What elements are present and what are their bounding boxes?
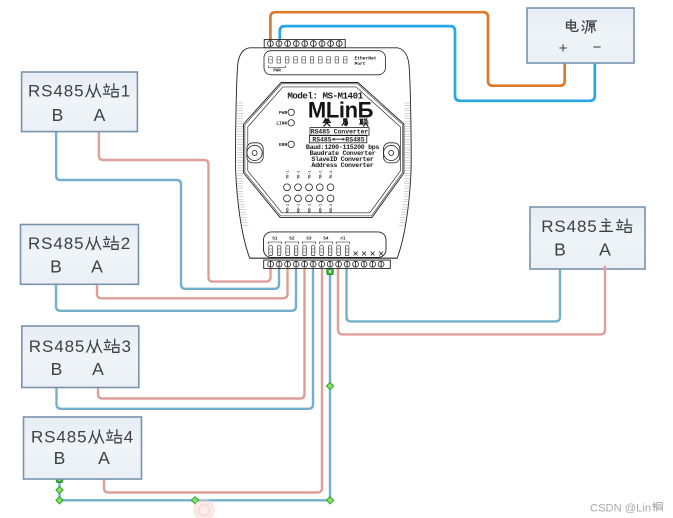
svg-text:2: 2 xyxy=(121,234,131,253)
svg-text:RS485: RS485 xyxy=(28,82,84,101)
selection handle diamond mid horizontal xyxy=(191,497,198,504)
svg-text:+: + xyxy=(559,40,568,57)
selection handle diamond mid left segment xyxy=(56,486,63,493)
bottom terminal strip xyxy=(264,260,391,268)
svg-text:CSDN @Lin: CSDN @Lin xyxy=(590,503,651,515)
svg-text:EtherNet: EtherNet xyxy=(355,56,377,62)
device bottom edge line xyxy=(250,257,398,259)
svg-text:TD-1: TD-1 xyxy=(330,170,334,179)
wire slave2 B (blue) to bottom terminal 4 xyxy=(56,266,296,311)
svg-text:RD-1: RD-1 xyxy=(319,204,323,213)
box RS485 master xyxy=(530,207,645,269)
selection handle diamond corner right xyxy=(326,497,333,504)
svg-text:RS485: RS485 xyxy=(28,234,84,253)
svg-text:TD-1: TD-1 xyxy=(287,170,291,179)
octagon panel outer xyxy=(244,83,404,218)
box RS485 slave 1 xyxy=(22,72,138,132)
wire slave3 B (blue) to bottom terminal 6 xyxy=(57,266,314,409)
body edge hatching xyxy=(237,103,410,225)
converter device MS-M1401 xyxy=(236,40,412,259)
box RS485 slave 2 xyxy=(21,225,139,285)
svg-text:RS485 Converter: RS485 Converter xyxy=(311,129,369,136)
svg-text:B: B xyxy=(54,448,66,468)
wire power + (orange) from converter top terminal 1 to power supply + xyxy=(270,12,564,86)
box RS485 slave 4 xyxy=(24,417,142,479)
top terminal strip xyxy=(264,40,345,48)
svg-text:RS485: RS485 xyxy=(312,136,331,143)
label box RS485 Converter xyxy=(310,128,369,136)
screw post left xyxy=(247,143,263,163)
svg-text:A: A xyxy=(92,359,104,379)
svg-text:RS485: RS485 xyxy=(31,428,87,447)
svg-text:S3: S3 xyxy=(306,236,312,241)
wire slave3 A (salmon) to bottom terminal 5 xyxy=(98,266,305,399)
svg-text:B: B xyxy=(554,240,566,260)
indicator circles row 1 xyxy=(284,184,291,191)
wire slave2 A (salmon) to bottom terminal 3 xyxy=(97,266,288,298)
svg-text:S2: S2 xyxy=(289,236,295,241)
svg-text:RD-1: RD-1 xyxy=(309,204,313,213)
box power supply xyxy=(527,8,634,63)
svg-text:B: B xyxy=(52,105,64,125)
wire slave4 A (salmon) to bottom terminal 7 xyxy=(104,266,322,493)
box RS485 slave 3 xyxy=(22,326,139,388)
svg-text:Address Converter: Address Converter xyxy=(311,162,374,169)
selection handle diamond mid right vertical xyxy=(326,382,333,389)
wire slave1 B (blue) to bottom terminal 2 xyxy=(56,130,279,289)
svg-text:S1: S1 xyxy=(272,236,278,241)
svg-text:B: B xyxy=(51,359,63,379)
svg-text:RD-1: RD-1 xyxy=(330,204,334,213)
master A wire stub inside box xyxy=(604,266,606,270)
svg-text:A: A xyxy=(91,257,103,277)
wire master B (blue) to bottom terminal 10 xyxy=(347,266,561,321)
device body outline xyxy=(236,48,412,258)
svg-text:TD-1: TD-1 xyxy=(319,170,323,179)
bottom connector panel xyxy=(264,232,387,258)
svg-text:1: 1 xyxy=(121,82,131,101)
svg-text:PWR: PWR xyxy=(273,70,281,74)
svg-text:TD-1: TD-1 xyxy=(298,170,302,179)
svg-text:−: − xyxy=(593,39,602,56)
octagon panel inner ridge 1 xyxy=(245,84,403,216)
svg-text:TD-1: TD-1 xyxy=(309,170,313,179)
selection handle square at slave4 B connection xyxy=(56,476,62,482)
svg-text:#1: #1 xyxy=(340,236,346,241)
svg-text:3: 3 xyxy=(122,337,132,356)
upper connector panel xyxy=(264,51,385,75)
wire power - (blue) from converter top terminal 2 to power supply - xyxy=(280,26,595,101)
svg-text:RD-1: RD-1 xyxy=(287,204,291,213)
wire slave4 B (blue, selected) to bottom terminal 8 xyxy=(60,266,331,500)
svg-text:A: A xyxy=(599,240,611,260)
label box RS485-RS485 xyxy=(309,136,366,143)
svg-text:RD-1: RD-1 xyxy=(298,204,302,213)
octagon panel inner ridge 2 xyxy=(248,87,401,213)
faint pink watermark logo xyxy=(193,499,215,518)
wire master A (salmon) to bottom terminal 9 xyxy=(338,266,605,334)
svg-text:LINK: LINK xyxy=(276,121,287,127)
logo chinese characters 美易联 xyxy=(323,119,330,126)
svg-text:PWR: PWR xyxy=(279,110,288,116)
svg-text:MLinБ: MLinБ xyxy=(308,98,374,123)
svg-text:B: B xyxy=(50,257,62,277)
screw post right xyxy=(384,143,400,163)
svg-text:RS485: RS485 xyxy=(541,217,597,236)
svg-text:RS485: RS485 xyxy=(345,136,364,143)
svg-text:S4: S4 xyxy=(323,236,329,241)
svg-text:A: A xyxy=(98,448,110,468)
svg-text:ERR: ERR xyxy=(279,142,288,148)
svg-text:RS485: RS485 xyxy=(29,337,85,356)
selection handle diamond corner left xyxy=(56,497,63,504)
svg-text:Port: Port xyxy=(355,61,366,67)
indicator circles row 2 xyxy=(284,195,291,202)
wire slave1 A (salmon) to bottom terminal 1 xyxy=(99,130,271,282)
svg-text:A: A xyxy=(94,105,106,125)
selection handle square at terminal 8 connection xyxy=(327,268,333,274)
svg-text:4: 4 xyxy=(124,428,134,447)
